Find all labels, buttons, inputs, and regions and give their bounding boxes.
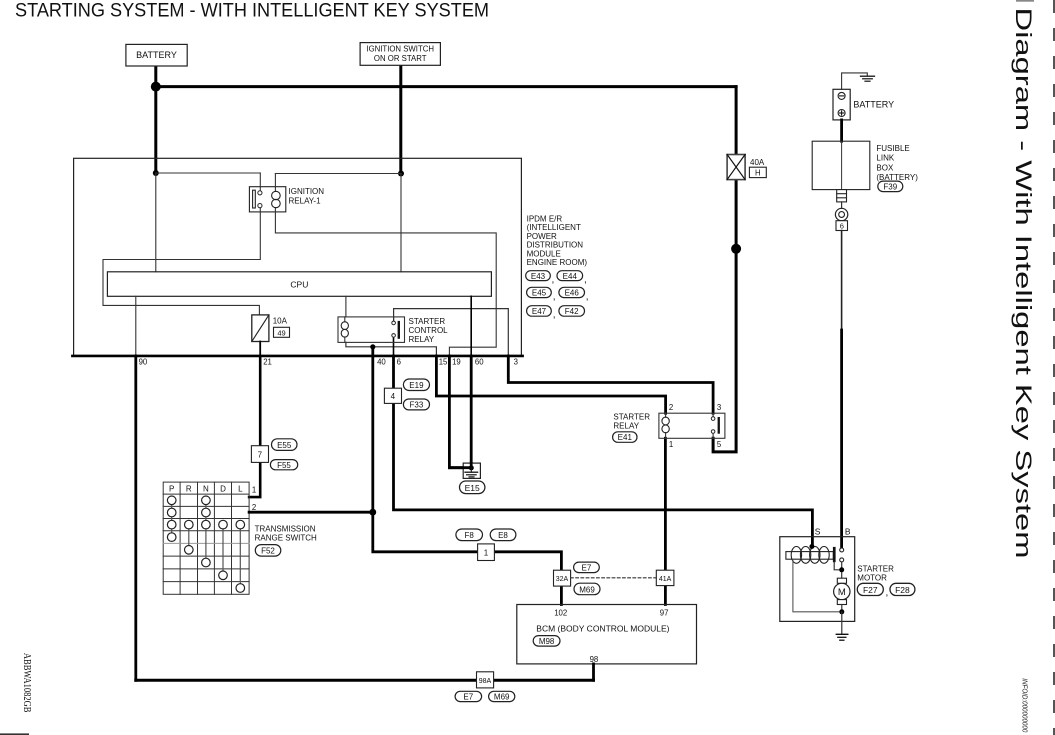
svg-text:E41: E41 xyxy=(618,433,633,442)
svg-text:ENGINE ROOM): ENGINE ROOM) xyxy=(527,258,588,267)
svg-text:(INTELLIGENT: (INTELLIGENT xyxy=(527,223,581,232)
CPU box xyxy=(107,272,491,297)
svg-text:RELAY-1: RELAY-1 xyxy=(289,197,322,206)
connector ring 6 xyxy=(835,208,847,220)
connector box 4 with E19 F33 xyxy=(384,388,401,403)
wire: starter relay pin 1 to 41A to BCM pin 97 xyxy=(664,438,667,604)
wire: pin 3 to starter relay pin 3 xyxy=(508,356,713,413)
svg-text:IGNITION SWITCH: IGNITION SWITCH xyxy=(366,45,434,54)
svg-text:40: 40 xyxy=(377,358,386,367)
wire: 32A to BCM pin 102 xyxy=(560,586,563,604)
connector ovals E47 F42 xyxy=(527,306,585,317)
bottom-left black page mark xyxy=(0,733,29,735)
svg-text:E43: E43 xyxy=(531,272,546,281)
connector ovals E45 E46 xyxy=(527,287,585,297)
starter motor box F27 F28 xyxy=(780,537,855,622)
svg-text:E8: E8 xyxy=(498,531,508,540)
svg-text:STARTER: STARTER xyxy=(857,565,894,574)
svg-text:19: 19 xyxy=(452,358,461,367)
connector ovals E43 E44 xyxy=(526,271,583,281)
wire: bottom ground rail xyxy=(136,679,594,682)
solenoid coil xyxy=(786,552,833,560)
node: pin40/TRS2 junction xyxy=(369,509,376,516)
wire: bus to 40A fuse xyxy=(735,87,738,155)
svg-text:M69: M69 xyxy=(579,585,595,594)
svg-text:97: 97 xyxy=(660,608,669,617)
node: pin 40 branch dot xyxy=(370,344,375,349)
svg-text:M98: M98 xyxy=(539,637,555,646)
wire: BCM pin 98 to bottom rail xyxy=(592,664,595,680)
connector 32A xyxy=(554,570,571,586)
svg-text:41A: 41A xyxy=(659,576,672,583)
wire: TRS pin 2 to junction xyxy=(249,511,373,514)
svg-text:40A: 40A xyxy=(750,158,765,167)
wire: BATTERY box drop xyxy=(154,66,157,174)
TRS contact circles xyxy=(167,496,244,592)
svg-text:98A: 98A xyxy=(479,678,492,685)
wire: ignition relay contact output wrap around CPU to 10A fuse xyxy=(103,212,260,315)
wire: CPU to pin 60 xyxy=(470,296,472,356)
wire: pin 60 to ground E15 xyxy=(470,356,473,467)
svg-text:POWER: POWER xyxy=(527,232,557,241)
svg-text:E45: E45 xyxy=(532,289,547,298)
wire: contact to B line xyxy=(834,562,839,570)
svg-text:F52: F52 xyxy=(261,547,275,556)
wire: solenoid return loop xyxy=(793,559,839,612)
svg-text:MOTOR: MOTOR xyxy=(857,574,887,583)
IPDM box bottom thick edge xyxy=(72,355,522,358)
svg-text:ABBWA1082GB: ABBWA1082GB xyxy=(21,653,32,713)
svg-text:IPDM E/R: IPDM E/R xyxy=(527,215,563,224)
svg-text:MODULE: MODULE xyxy=(527,249,561,258)
svg-text:H: H xyxy=(755,169,761,178)
relay STARTER CONTROL RELAY xyxy=(338,317,405,343)
solenoid contact bar xyxy=(833,547,836,562)
svg-text:10A: 10A xyxy=(273,317,288,326)
wire: ignition relay coil top pin xyxy=(274,174,276,187)
svg-text:LINK: LINK xyxy=(876,154,894,163)
wire: CPU to starter control relay coil xyxy=(345,296,347,317)
wire: battery feed bus (thick horizontal) xyxy=(156,85,736,88)
svg-text:1: 1 xyxy=(252,486,256,495)
wire: dashed harness link 32A-41A xyxy=(571,577,657,579)
wire: link to connector xyxy=(841,202,843,208)
module BCM M98 xyxy=(517,605,697,664)
svg-text:3: 3 xyxy=(514,358,518,367)
svg-text:DISTRIBUTION: DISTRIBUTION xyxy=(527,241,584,250)
svg-text:S: S xyxy=(815,527,821,537)
svg-text:F27: F27 xyxy=(863,585,878,595)
svg-text:CONTROL: CONTROL xyxy=(409,326,449,335)
svg-text:,: , xyxy=(584,275,587,286)
svg-text:BATTERY: BATTERY xyxy=(136,50,177,60)
wire: ignition branch down to CPU xyxy=(400,174,402,272)
svg-text:ON OR START: ON OR START xyxy=(374,54,427,63)
svg-text:N: N xyxy=(203,484,209,493)
fuse 10A 49 xyxy=(252,315,269,342)
wire: IGNITION SWITCH drop xyxy=(399,65,402,174)
wire: battery branch down to CPU xyxy=(155,173,157,272)
svg-text:F39: F39 xyxy=(883,183,897,192)
svg-text:STARTER: STARTER xyxy=(613,413,650,422)
IPDM E/R label block xyxy=(527,215,588,268)
transmission range switch grid F52 xyxy=(163,482,249,594)
wire: relay top rail left segment xyxy=(156,172,260,174)
ground (starter motor) xyxy=(836,633,848,635)
svg-text:F33: F33 xyxy=(410,401,424,410)
svg-text:15: 15 xyxy=(439,358,448,367)
B terminal contacts xyxy=(840,548,844,552)
svg-text:98: 98 xyxy=(590,655,599,664)
svg-text:F8: F8 xyxy=(465,531,475,540)
wire: pin 6 to starter motor S xyxy=(394,356,813,547)
connector ovals E7 M69 (upper) xyxy=(574,562,600,573)
svg-text:BOX: BOX xyxy=(876,163,894,172)
svg-text:,: , xyxy=(553,291,556,302)
svg-text:21: 21 xyxy=(263,358,272,367)
box BATTERY (top-left) xyxy=(126,44,187,66)
wire: ignition relay coil output to pin 19 xyxy=(275,212,496,357)
wire: battery to fusible link box xyxy=(840,120,843,141)
svg-text:6: 6 xyxy=(397,358,401,367)
svg-text:4: 4 xyxy=(391,392,396,401)
wire: 40A fuse down to starter relay pin5 xyxy=(713,180,736,452)
svg-text:Diagram - With Intelligent Key: Diagram - With Intelligent Key System xyxy=(1011,8,1036,559)
svg-text:RELAY: RELAY xyxy=(613,422,639,431)
wire: B feed down to starter motor xyxy=(841,231,843,331)
fusible link element xyxy=(837,190,847,202)
ground (battery top right) xyxy=(842,73,868,89)
svg-text:RELAY: RELAY xyxy=(409,335,435,344)
svg-text:102: 102 xyxy=(554,608,567,617)
wire: starter control relay contact bottom to pin 6 xyxy=(393,337,395,356)
svg-text:90: 90 xyxy=(139,358,148,367)
wire: junction down and right to 32A xyxy=(373,512,562,570)
svg-text:E46: E46 xyxy=(565,289,580,298)
svg-text:E7: E7 xyxy=(582,564,592,573)
top-right cropped text sliver xyxy=(1016,0,1034,2)
svg-text:60: 60 xyxy=(475,358,484,367)
svg-text:L: L xyxy=(238,484,243,493)
svg-text:F55: F55 xyxy=(277,461,291,470)
svg-text:CPU: CPU xyxy=(290,280,308,290)
node: junction on 40A wire xyxy=(731,244,741,254)
svg-text:32A: 32A xyxy=(556,576,569,583)
svg-text:E15: E15 xyxy=(465,483,480,493)
box IGNITION SWITCH ON OR START xyxy=(360,43,440,66)
wire: starter control relay contact top to pin 3 xyxy=(394,309,509,357)
wire: pin 90 drop to bottom rail xyxy=(135,296,137,356)
svg-text:2: 2 xyxy=(252,503,256,512)
svg-text:E47: E47 xyxy=(532,307,547,316)
svg-text:1: 1 xyxy=(484,549,489,558)
connector 98A with E7 M69 xyxy=(477,672,494,688)
svg-text:E55: E55 xyxy=(277,441,292,450)
svg-text:STARTER: STARTER xyxy=(409,317,446,326)
pin labels under IPDM xyxy=(139,358,518,367)
svg-text:6: 6 xyxy=(840,222,844,231)
wire: pin 21 drop to TRS pin 1 xyxy=(249,356,260,497)
svg-text:E19: E19 xyxy=(409,381,424,390)
connector 41A xyxy=(656,570,674,585)
svg-text:1: 1 xyxy=(669,440,673,449)
fuse 40A H (fusible link) xyxy=(727,155,745,180)
svg-text:M: M xyxy=(838,587,846,598)
svg-text:TRANSMISSION: TRANSMISSION xyxy=(255,525,316,534)
IPDM E/R box xyxy=(74,158,522,356)
svg-text:,: , xyxy=(552,275,555,286)
relay IGNITION RELAY-1 xyxy=(249,187,285,212)
svg-text:STARTING SYSTEM - WITH INTELLI: STARTING SYSTEM - WITH INTELLIGENT KEY S… xyxy=(15,1,489,22)
svg-text:,: , xyxy=(586,291,589,302)
svg-text:3: 3 xyxy=(717,403,721,412)
svg-text:P: P xyxy=(169,484,174,493)
wire: pin 15 to starter relay pin 2 xyxy=(436,356,665,413)
battery symbol (right) xyxy=(833,89,850,120)
svg-text:7: 7 xyxy=(258,450,263,459)
svg-text:F42: F42 xyxy=(565,307,579,316)
wire: pin 19 to ground E15 xyxy=(449,356,469,468)
wire: ignition relay contact top pin xyxy=(259,173,261,187)
fusible link box F39 xyxy=(812,141,870,189)
svg-text:2: 2 xyxy=(669,403,673,412)
node: ignition wire junction at IPDM xyxy=(398,171,404,177)
right edge dashed page border xyxy=(1053,0,1055,735)
svg-text:BATTERY: BATTERY xyxy=(853,100,894,110)
svg-text:FUSIBLE: FUSIBLE xyxy=(876,144,909,153)
connector box 7 with E55 F55 xyxy=(251,446,268,463)
ground E15 xyxy=(463,463,480,478)
connector box 1 with F8 E8 xyxy=(478,544,495,561)
svg-text:E44: E44 xyxy=(563,272,578,281)
svg-text:D: D xyxy=(220,484,226,493)
wire: 10A fuse to pin 21 xyxy=(259,342,261,356)
node: bus corner dot xyxy=(151,82,161,92)
svg-text:BCM (BODY CONTROL MODULE): BCM (BODY CONTROL MODULE) xyxy=(536,623,669,633)
wire: motor to ground xyxy=(841,612,843,634)
svg-text:5: 5 xyxy=(717,440,722,449)
wire: pin 40 drop xyxy=(371,347,374,512)
svg-text:IGNITION: IGNITION xyxy=(289,187,325,196)
wire: relay top rail right segment xyxy=(275,173,401,175)
svg-text:,: , xyxy=(553,310,556,321)
svg-text:B: B xyxy=(845,527,851,537)
svg-text:,: , xyxy=(886,588,889,599)
svg-text:M69: M69 xyxy=(494,693,510,702)
relay STARTER RELAY E41 xyxy=(659,413,725,438)
svg-text:R: R xyxy=(186,484,192,493)
svg-text:RANGE SWITCH: RANGE SWITCH xyxy=(255,534,317,543)
motor M xyxy=(837,578,846,583)
TRS internal contact links xyxy=(172,500,241,588)
wire: starter control relay coil out to pin 15 xyxy=(346,342,437,356)
node: battery wire junction at IPDM xyxy=(153,170,159,176)
svg-text:49: 49 xyxy=(277,328,285,337)
svg-text:F28: F28 xyxy=(895,585,910,595)
svg-text:E7: E7 xyxy=(463,693,473,702)
svg-text:INFOID:000000000: INFOID:000000000 xyxy=(1021,678,1030,732)
